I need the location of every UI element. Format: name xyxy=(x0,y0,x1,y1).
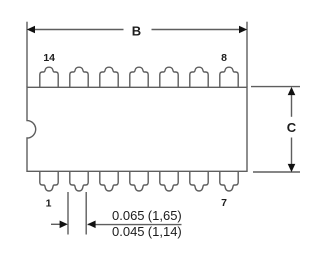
svg-text:0.065 (1,65): 0.065 (1,65) xyxy=(112,208,182,223)
svg-text:C: C xyxy=(287,120,297,135)
svg-text:B: B xyxy=(132,23,141,38)
svg-text:14: 14 xyxy=(43,52,55,64)
svg-text:7: 7 xyxy=(221,197,227,209)
svg-text:0.045 (1,14): 0.045 (1,14) xyxy=(112,224,182,239)
svg-text:8: 8 xyxy=(221,52,227,64)
svg-text:1: 1 xyxy=(46,198,52,210)
